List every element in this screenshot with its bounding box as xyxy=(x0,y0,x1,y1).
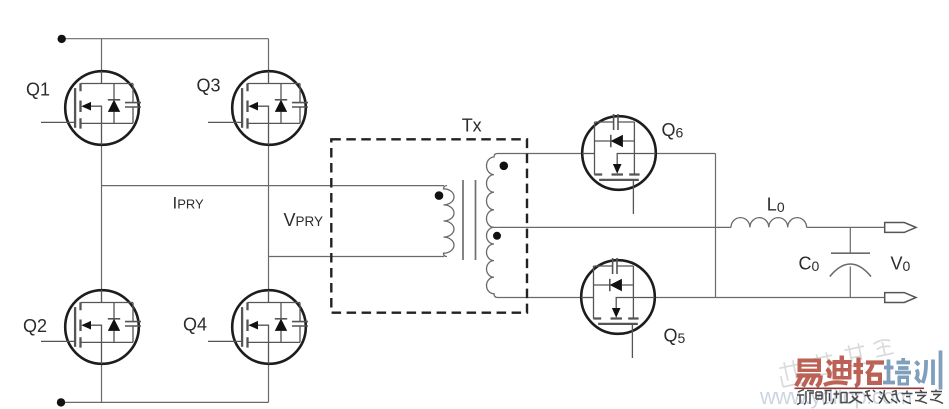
transformer primary dot xyxy=(435,191,444,200)
svg-text:Q1: Q1 xyxy=(26,79,50,99)
transformer dashed box xyxy=(331,139,527,312)
watermark: faint gray site name glyphs xyxy=(778,338,894,387)
transistor Q1 xyxy=(41,71,141,145)
inductor L0 xyxy=(731,218,807,228)
transistor Q6 xyxy=(582,114,656,214)
transformer secondary center dot xyxy=(493,232,501,240)
output arrow top xyxy=(885,223,916,233)
node dot bottom rail xyxy=(57,398,65,406)
svg-text:IPRY: IPRY xyxy=(173,194,205,213)
watermark: dark red underline xyxy=(795,387,925,389)
watermark: red brand character Tuo xyxy=(854,358,885,387)
transistor Q3 xyxy=(208,71,308,145)
wire Q6 to bus xyxy=(654,153,716,155)
watermark: red brand character Di xyxy=(824,356,852,386)
svg-text:Tx: Tx xyxy=(462,116,482,136)
transistor Q4 xyxy=(208,290,308,364)
watermark: red brand character Yi xyxy=(796,359,821,387)
wire primary bottom (VPRY) xyxy=(269,256,445,258)
svg-text:Q3: Q3 xyxy=(197,76,221,96)
wire primary top (IPRY) xyxy=(102,185,445,187)
output arrow bottom xyxy=(885,293,916,303)
transformer core xyxy=(463,180,476,260)
node dot top rail xyxy=(58,35,66,43)
watermark: blue brand character Xun xyxy=(916,351,941,390)
wire left leg middle xyxy=(101,144,103,291)
wire right leg middle xyxy=(268,144,270,291)
wire bus vertical xyxy=(715,154,717,298)
transformer primary winding xyxy=(444,186,455,257)
wire left leg upper xyxy=(101,39,103,72)
transistor Q2 xyxy=(41,290,141,364)
watermark: blue brand character Pei xyxy=(883,358,911,386)
wire secondary top lead to Q6 xyxy=(498,153,585,155)
wire center tap to L0 xyxy=(493,226,731,228)
wire secondary bottom lead to Q5 xyxy=(498,297,584,299)
wire left leg lower xyxy=(101,363,103,402)
wire Q5 to bottom output xyxy=(653,297,885,299)
capacitor C0 xyxy=(830,227,871,297)
svg-text:Q2: Q2 xyxy=(23,316,47,336)
wire L0 to output xyxy=(807,226,885,228)
wire right leg upper xyxy=(268,39,270,72)
watermark: dark slogan characters xyxy=(797,390,943,405)
wire right leg lower xyxy=(268,363,270,402)
wire top rail xyxy=(62,38,269,40)
transformer secondary bottom winding xyxy=(486,227,497,297)
transformer secondary top dot xyxy=(500,162,509,171)
wire bottom rail xyxy=(61,401,269,403)
transformer secondary top winding xyxy=(486,154,497,228)
transistor Q5 xyxy=(581,258,655,358)
svg-text:Q4: Q4 xyxy=(183,315,207,335)
